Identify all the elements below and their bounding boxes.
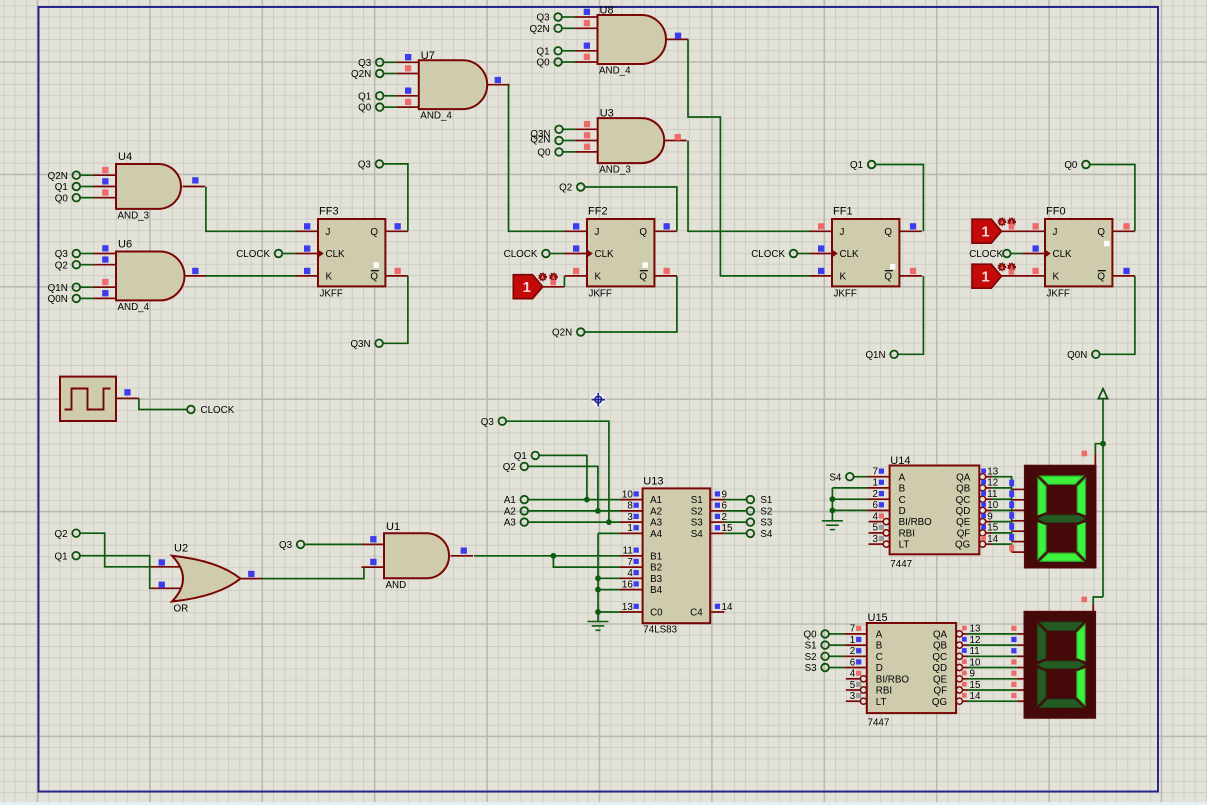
svg-text:AND_4: AND_4 xyxy=(118,302,150,313)
svg-text:QG: QG xyxy=(955,540,970,551)
svg-text:S4: S4 xyxy=(760,529,773,540)
svg-text:Q3: Q3 xyxy=(358,160,372,171)
svg-text:3: 3 xyxy=(627,512,633,523)
svg-text:S2: S2 xyxy=(760,507,772,518)
svg-text:S4: S4 xyxy=(829,472,842,483)
node Q0N terminal FF0 xyxy=(1092,351,1100,359)
svg-text:S1: S1 xyxy=(691,495,703,506)
svg-text:U2: U2 xyxy=(174,543,188,555)
svg-text:11: 11 xyxy=(623,546,633,557)
svg-text:J: J xyxy=(326,227,331,238)
svg-text:S3: S3 xyxy=(805,663,818,674)
ground net U14 xyxy=(832,487,867,489)
svg-text:J: J xyxy=(595,227,600,238)
wire U14 QC to display xyxy=(992,499,1012,510)
logic state 1 flag FF0 J xyxy=(1001,230,1023,232)
wire U15 QA to display xyxy=(968,633,1017,635)
svg-text:Q1: Q1 xyxy=(537,46,550,57)
svg-text:Q3: Q3 xyxy=(279,540,293,551)
svg-text:QD: QD xyxy=(932,663,947,674)
svg-text:Q: Q xyxy=(884,272,892,283)
svg-text:AND_3: AND_3 xyxy=(599,165,631,176)
svg-text:B4: B4 xyxy=(650,585,663,596)
node Q3 terminal FF3 xyxy=(376,160,384,168)
svg-text:A: A xyxy=(876,630,883,641)
node A3 terminal xyxy=(521,518,529,526)
ground symbol U14 xyxy=(822,520,843,522)
svg-text:2: 2 xyxy=(850,646,855,657)
svg-text:CLK: CLK xyxy=(840,249,860,260)
svg-text:S3: S3 xyxy=(760,518,773,529)
svg-text:Q: Q xyxy=(639,227,647,238)
svg-text:LT: LT xyxy=(899,540,910,551)
svg-text:Q2N: Q2N xyxy=(351,69,371,80)
svg-text:QF: QF xyxy=(957,529,971,540)
svg-text:Q3: Q3 xyxy=(537,13,551,24)
wire U2 out to U1 input xyxy=(262,567,364,579)
svg-text:1: 1 xyxy=(872,478,877,489)
svg-text:D: D xyxy=(876,663,883,674)
svg-text:A3: A3 xyxy=(650,518,663,529)
svg-text:QB: QB xyxy=(933,641,948,652)
7-segment display 2 showing 1 xyxy=(1024,611,1096,718)
wire U4 out to FF3 J xyxy=(206,187,296,232)
svg-text:14: 14 xyxy=(722,602,733,613)
svg-text:U8: U8 xyxy=(600,5,614,17)
svg-text:S2: S2 xyxy=(691,507,703,518)
svg-text:7: 7 xyxy=(872,467,877,478)
svg-text:CLK: CLK xyxy=(326,249,346,260)
svg-text:Q: Q xyxy=(1097,227,1105,238)
svg-text:11: 11 xyxy=(970,646,980,657)
svg-text:5: 5 xyxy=(872,523,878,534)
svg-text:Q0: Q0 xyxy=(55,193,69,204)
svg-text:Q0: Q0 xyxy=(804,630,818,641)
node S3 terminal U15 xyxy=(821,664,829,672)
svg-text:8: 8 xyxy=(627,501,633,512)
svg-text:BI/RBO: BI/RBO xyxy=(876,674,910,685)
svg-text:4: 4 xyxy=(850,669,856,680)
node Q2N terminal FF2 xyxy=(577,328,585,336)
svg-text:JKFF: JKFF xyxy=(1047,288,1070,299)
svg-text:QB: QB xyxy=(956,484,971,495)
svg-text:CLOCK: CLOCK xyxy=(969,249,1003,260)
svg-text:QE: QE xyxy=(956,517,971,528)
7-segment display 1 showing 0 xyxy=(1024,465,1096,568)
svg-text:AND: AND xyxy=(386,580,407,591)
svg-text:Q1: Q1 xyxy=(358,91,371,102)
svg-text:QE: QE xyxy=(933,674,948,685)
svg-text:Q: Q xyxy=(1097,272,1105,283)
svg-text:S4: S4 xyxy=(691,529,704,540)
wire U6 out to FF3 K xyxy=(206,275,296,277)
svg-text:K: K xyxy=(326,272,333,283)
svg-text:3: 3 xyxy=(850,691,856,702)
wire U8 out to FF1 K xyxy=(688,39,810,276)
svg-text:U14: U14 xyxy=(890,455,910,467)
svg-text:2: 2 xyxy=(872,489,877,500)
svg-text:CLOCK: CLOCK xyxy=(504,249,538,260)
svg-text:Q: Q xyxy=(370,272,378,283)
node A1 terminal xyxy=(521,496,529,504)
node Q3 terminal U1 xyxy=(297,541,305,549)
svg-text:S1: S1 xyxy=(805,641,817,652)
node S1 terminal U15 xyxy=(821,641,829,649)
svg-text:Q3: Q3 xyxy=(358,58,372,69)
svg-text:BI/RBO: BI/RBO xyxy=(899,517,933,528)
svg-text:D: D xyxy=(899,506,906,517)
svg-text:K: K xyxy=(595,272,602,283)
svg-text:Q1: Q1 xyxy=(514,451,527,462)
svg-text:15: 15 xyxy=(970,680,981,691)
AND gate U1 xyxy=(362,543,385,545)
svg-text:Q2N: Q2N xyxy=(530,135,550,146)
wire U14 QF to display xyxy=(992,533,1012,542)
svg-text:QF: QF xyxy=(933,686,947,697)
svg-text:5: 5 xyxy=(850,680,856,691)
svg-text:K: K xyxy=(1053,272,1060,283)
svg-text:10: 10 xyxy=(622,489,633,500)
svg-text:B: B xyxy=(899,484,906,495)
svg-text:CLK: CLK xyxy=(1053,249,1073,260)
wire U14 QG to display xyxy=(992,544,1012,552)
AND gate U6 xyxy=(94,253,117,255)
svg-text:FF2: FF2 xyxy=(588,206,608,218)
wire U7 out to FF2 J xyxy=(509,85,565,232)
svg-text:FF3: FF3 xyxy=(319,206,339,218)
svg-text:Q3N: Q3N xyxy=(350,339,370,350)
svg-text:1: 1 xyxy=(981,269,989,286)
svg-text:Q2N: Q2N xyxy=(529,24,549,35)
svg-text:U13: U13 xyxy=(643,476,663,488)
svg-text:Q1N: Q1N xyxy=(865,350,885,361)
svg-text:U3: U3 xyxy=(600,108,614,120)
svg-text:15: 15 xyxy=(987,523,998,534)
svg-text:Q2N: Q2N xyxy=(552,328,572,339)
svg-text:1: 1 xyxy=(627,523,632,534)
wire U15 QD to display xyxy=(968,667,1017,669)
svg-text:FF1: FF1 xyxy=(833,206,853,218)
wire arrow vertical bus xyxy=(1102,399,1104,597)
svg-text:QD: QD xyxy=(956,506,971,517)
svg-text:A1: A1 xyxy=(504,495,516,506)
svg-text:QC: QC xyxy=(932,652,947,663)
svg-text:U4: U4 xyxy=(118,151,132,163)
svg-text:Q: Q xyxy=(370,227,378,238)
node Q1N terminal FF1 xyxy=(890,351,898,359)
svg-text:Q0: Q0 xyxy=(358,103,372,114)
svg-text:A: A xyxy=(899,472,906,483)
svg-text:3: 3 xyxy=(872,534,878,545)
wire U15 QG to display xyxy=(968,700,1017,702)
node S1-S4 terminals xyxy=(725,499,747,501)
IC U14 7447 xyxy=(867,476,890,478)
node Q0 terminal U15 xyxy=(821,630,829,638)
svg-text:U15: U15 xyxy=(868,612,888,624)
node S2 terminal U15 xyxy=(821,653,829,661)
svg-text:JKFF: JKFF xyxy=(834,288,857,299)
svg-text:QC: QC xyxy=(956,495,971,506)
node S4 terminal U14 xyxy=(846,473,854,481)
node Q2 terminal U2 xyxy=(72,529,80,537)
wire branch to display1 top pin xyxy=(1100,441,1106,447)
wire U15 QF to display xyxy=(968,689,1017,691)
svg-text:RBI: RBI xyxy=(876,686,892,697)
svg-text:B3: B3 xyxy=(650,574,663,585)
svg-text:U6: U6 xyxy=(118,239,132,251)
svg-text:Q0N: Q0N xyxy=(48,294,68,305)
svg-text:Q0: Q0 xyxy=(537,58,551,69)
svg-text:LT: LT xyxy=(876,697,887,708)
svg-text:FF0: FF0 xyxy=(1046,206,1066,218)
node CLOCK terminal FF2 xyxy=(542,250,550,258)
sheet origin marker xyxy=(590,391,607,408)
flip-flop FF3 xyxy=(296,230,319,232)
svg-text:JKFF: JKFF xyxy=(589,288,612,299)
node Q3 terminal U13 xyxy=(499,417,507,425)
ground net U13 xyxy=(598,532,620,534)
svg-text:QA: QA xyxy=(956,472,971,483)
AND gate U7 xyxy=(396,61,419,63)
svg-text:U7: U7 xyxy=(421,50,435,62)
flip-flop FF2 xyxy=(565,230,588,232)
node CLOCK terminal source xyxy=(187,406,195,414)
svg-text:AND_4: AND_4 xyxy=(599,66,631,77)
node Q0 terminal FF0 xyxy=(1082,161,1090,169)
svg-text:OR: OR xyxy=(174,604,189,615)
svg-text:Q2: Q2 xyxy=(55,260,68,271)
node Q1 terminal FF1 xyxy=(868,161,876,169)
wire U1 out to U13 B1/B2 xyxy=(474,555,620,557)
svg-text:Q1N: Q1N xyxy=(48,283,68,294)
svg-text:13: 13 xyxy=(622,602,633,613)
svg-text:J: J xyxy=(1053,227,1058,238)
svg-text:Q0N: Q0N xyxy=(1067,350,1087,361)
svg-text:AND_3: AND_3 xyxy=(118,210,150,221)
wire U3 out to FF1 J xyxy=(688,141,810,232)
svg-text:Q2: Q2 xyxy=(55,529,68,540)
svg-text:A2: A2 xyxy=(504,507,516,518)
ground symbol U13 xyxy=(588,621,609,623)
svg-text:C: C xyxy=(899,495,906,506)
svg-text:1: 1 xyxy=(850,635,855,646)
logic state 1 flag FF0 K xyxy=(1001,275,1023,277)
wire U14 QA to display xyxy=(992,477,1012,490)
svg-text:CLOCK: CLOCK xyxy=(201,405,235,416)
svg-text:13: 13 xyxy=(970,624,981,635)
clock generator source xyxy=(60,377,116,421)
node Q1 terminal U2 xyxy=(72,552,80,560)
AND gate U8 xyxy=(575,16,598,18)
svg-text:RBI: RBI xyxy=(899,529,915,540)
svg-text:J: J xyxy=(840,227,845,238)
svg-text:7447: 7447 xyxy=(868,718,890,729)
node CLOCK terminal FF1 xyxy=(790,250,798,258)
svg-text:9: 9 xyxy=(970,669,975,680)
svg-text:Q3: Q3 xyxy=(55,249,69,260)
svg-text:A3: A3 xyxy=(504,518,517,529)
flip-flop FF0 xyxy=(1023,230,1046,232)
wire U14 QB to display xyxy=(992,488,1012,500)
svg-text:10: 10 xyxy=(970,657,981,668)
svg-text:AND_4: AND_4 xyxy=(420,111,452,122)
node Q2 terminal U13 xyxy=(521,463,529,471)
wire clock to CLOCK terminal xyxy=(139,398,187,409)
svg-text:CLOCK: CLOCK xyxy=(236,249,270,260)
svg-text:7447: 7447 xyxy=(890,559,912,570)
svg-text:QG: QG xyxy=(932,697,947,708)
wire U15 QC to display xyxy=(968,655,1017,657)
node Q2 terminal FF2 xyxy=(577,183,585,191)
svg-text:B2: B2 xyxy=(650,563,662,574)
svg-text:14: 14 xyxy=(970,691,981,702)
node Q1 terminal U13 xyxy=(532,452,540,460)
svg-text:QA: QA xyxy=(933,630,948,641)
svg-text:C: C xyxy=(876,652,883,663)
wire U14 QD to display xyxy=(992,510,1012,520)
svg-text:B1: B1 xyxy=(650,551,662,562)
svg-text:Q1: Q1 xyxy=(850,160,863,171)
node Q3N terminal FF3 xyxy=(375,340,383,348)
svg-text:A1: A1 xyxy=(650,495,662,506)
OR gate U2 xyxy=(150,566,188,568)
svg-text:C0: C0 xyxy=(650,608,663,619)
svg-text:Q: Q xyxy=(639,272,647,283)
svg-text:Q: Q xyxy=(884,227,892,238)
node CLOCK terminal FF0 xyxy=(1003,250,1011,258)
svg-text:S3: S3 xyxy=(691,518,704,529)
svg-text:Q1: Q1 xyxy=(55,182,68,193)
svg-text:CLK: CLK xyxy=(595,249,615,260)
svg-text:74LS83: 74LS83 xyxy=(643,625,677,636)
node CLOCK terminal FF3 xyxy=(275,250,283,258)
svg-text:4: 4 xyxy=(872,511,878,522)
svg-text:16: 16 xyxy=(622,579,633,590)
wire U14 QE to display xyxy=(992,522,1012,532)
svg-text:7: 7 xyxy=(627,557,632,568)
wire U15 QB to display xyxy=(968,644,1017,646)
svg-text:C4: C4 xyxy=(690,608,703,619)
svg-text:1: 1 xyxy=(981,224,989,241)
svg-text:1: 1 xyxy=(523,279,531,296)
IC U13 74LS83 xyxy=(620,499,643,501)
AND gate U4 xyxy=(94,174,117,176)
svg-text:CLOCK: CLOCK xyxy=(751,249,785,260)
node A2 terminal xyxy=(521,507,529,515)
svg-text:Q2: Q2 xyxy=(503,462,516,473)
wire U15 QE to display xyxy=(968,678,1017,680)
flip-flop FF1 xyxy=(810,230,833,232)
svg-text:7: 7 xyxy=(850,624,855,635)
svg-text:Q2: Q2 xyxy=(559,183,572,194)
svg-text:Q3: Q3 xyxy=(481,417,495,428)
IC U15 7447 xyxy=(844,633,867,635)
power arrow symbol xyxy=(1098,389,1107,399)
svg-text:4: 4 xyxy=(627,568,633,579)
svg-text:S1: S1 xyxy=(760,495,772,506)
svg-text:Q2N: Q2N xyxy=(48,171,68,182)
svg-text:S2: S2 xyxy=(805,652,817,663)
node Q3N / Q2N terminals U3 xyxy=(555,126,563,134)
svg-text:6: 6 xyxy=(872,500,878,511)
svg-text:Q1: Q1 xyxy=(55,551,68,562)
wire branch to display2 top pin xyxy=(1093,597,1103,604)
svg-text:U1: U1 xyxy=(386,521,400,533)
svg-text:A4: A4 xyxy=(650,529,663,540)
svg-text:K: K xyxy=(840,272,847,283)
logic state 1 flag FF2 K xyxy=(543,286,565,288)
svg-text:6: 6 xyxy=(850,657,856,668)
svg-text:JKFF: JKFF xyxy=(320,288,343,299)
svg-text:Q0: Q0 xyxy=(537,148,551,159)
svg-text:B: B xyxy=(876,641,883,652)
AND gate U3 xyxy=(575,128,598,130)
svg-text:15: 15 xyxy=(722,523,733,534)
svg-text:A2: A2 xyxy=(650,507,662,518)
svg-text:Q0: Q0 xyxy=(1064,160,1078,171)
